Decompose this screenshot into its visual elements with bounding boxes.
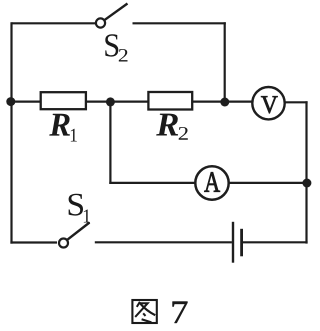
wire top-right segment	[133, 22, 226, 24]
wire middle: R2 to voltmeter	[192, 100, 253, 102]
voltmeter U1	[252, 87, 284, 119]
battery BT1: short negative plate	[240, 229, 243, 256]
wire ammeter branch horizontal left	[109, 182, 195, 184]
ammeter U2	[195, 166, 228, 199]
battery BT1: long positive plate	[232, 222, 234, 263]
node: between R1 and R2	[106, 97, 115, 106]
wire bottom-left segment	[10, 241, 57, 243]
node: left rail / middle wire junction	[6, 97, 15, 106]
wire left vertical	[10, 22, 12, 243]
switch S1	[59, 223, 90, 248]
wire vertical from top into node B	[224, 22, 226, 101]
label S2: letter S	[105, 34, 118, 56]
resistor R2	[148, 92, 192, 110]
label S1: subscript 1	[84, 209, 90, 222]
label S1: letter S	[69, 194, 83, 216]
wire middle: node A to R1	[10, 100, 41, 102]
label R1: letter R	[49, 114, 70, 136]
wire right vertical rail	[305, 101, 307, 243]
node: right rail / ammeter junction	[302, 179, 311, 188]
caption numeral 7	[172, 302, 187, 323]
label R1: subscript 1	[71, 129, 77, 142]
wire middle: R1 to R2	[86, 100, 149, 102]
wire bottom right: battery to right rail	[243, 241, 308, 243]
wire voltmeter to right rail	[284, 101, 307, 103]
resistor R1	[41, 92, 86, 109]
wire ammeter branch vertical	[109, 101, 111, 185]
caption: character tu (drawn strokes)	[132, 300, 156, 323]
wire ammeter to right rail	[230, 182, 308, 184]
wire bottom middle: S1 to battery	[95, 241, 232, 243]
label R2: letter R	[156, 114, 178, 136]
label R2: subscript 2	[179, 127, 188, 140]
label S2: subscript 2	[119, 49, 128, 62]
voltmeter letter V	[261, 96, 277, 113]
ammeter letter A	[204, 172, 220, 191]
switch S2	[96, 4, 128, 28]
wire top-left segment	[12, 22, 96, 24]
node: R2 / top branch junction	[220, 98, 229, 107]
